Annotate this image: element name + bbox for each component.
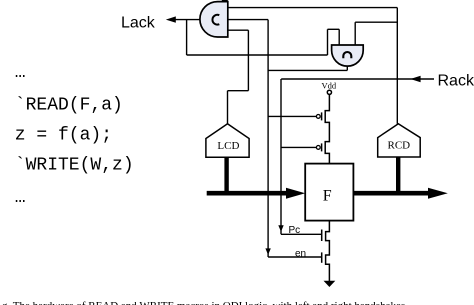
- wire: Rack vertical net down to Pc gate: [280, 79, 282, 234]
- transistor Q4 NMOS gate bar (en): [321, 252, 323, 262]
- arrowhead: right data bus output: [428, 188, 448, 199]
- wire: en gate line: [268, 256, 322, 258]
- svg-text:en: en: [295, 249, 306, 260]
- wire: vertical down to LCD apex: [227, 91, 229, 124]
- wire: clipped stub at top of U1: [222, 0, 228, 2]
- wire: U2 right input rise: [354, 22, 356, 45]
- wire: Q2 gate line from Rack net: [281, 146, 316, 148]
- svg-text:LCD: LCD: [217, 140, 239, 152]
- svg-text:`WRITE(W,z): `WRITE(W,z): [15, 156, 134, 176]
- wire: Lack feedback horizontal run: [187, 54, 328, 56]
- wire: U2 output stub: [346, 65, 348, 71]
- transistor Q1 PMOS gate bar: [321, 112, 323, 120]
- block F latch box: [305, 164, 353, 221]
- transistor Q3 NMOS gate bar (Pc): [321, 230, 323, 242]
- transistor Q2 PMOS bubble: [316, 146, 320, 150]
- arrowhead: Rack input arrow: [410, 76, 420, 82]
- wire: Pc gate line: [281, 233, 322, 235]
- wire: horizontal jog of LCD path: [228, 90, 249, 92]
- transistor Q1,Q2 PMOS chain channel path: [325, 94, 329, 163]
- svg-text:RCD: RCD: [387, 139, 410, 151]
- node: Vdd terminal dot: [327, 90, 331, 94]
- wire: U2 left input drop: [338, 29, 340, 45]
- svg-text:…: …: [15, 63, 26, 83]
- wire: Q1 gate line from U2 output net: [268, 115, 316, 117]
- wire: U2 output horizontal back to vertical net: [268, 69, 347, 71]
- svg-text:Pc: Pc: [289, 225, 301, 236]
- svg-text:g. The hardware of READ and WR: g. The hardware of READ and WRITE macros…: [2, 300, 405, 305]
- label: C glyph inside U2: [343, 52, 351, 58]
- wire: middle input of U1 from U2 output net: [228, 19, 268, 21]
- wire: left data bus (thick): [207, 191, 288, 196]
- arrowhead: Pc net downward arrow: [278, 225, 283, 232]
- transistor Q3,Q4 NMOS chain channel path: [326, 221, 330, 282]
- wire: vertical net of U2 output down to en gate: [267, 20, 269, 257]
- op-amp U1 C-element gate body: [200, 2, 228, 37]
- block LCD completion detector: [206, 124, 249, 157]
- op-amp U2 C-element gate body (pointing down): [332, 45, 364, 66]
- wire: right data bus (thick): [353, 191, 429, 196]
- arrowhead: left data bus into F: [286, 188, 305, 199]
- arrowhead: en net downward arrow: [265, 248, 270, 255]
- wire: top input from Rack net to C-element U1: [228, 7, 397, 9]
- svg-text:…: …: [15, 188, 26, 208]
- svg-text:Rack: Rack: [438, 72, 474, 89]
- transistor Q2 PMOS gate bar: [321, 143, 323, 151]
- arrowhead: Lack output arrow: [166, 16, 176, 22]
- wire: vertical from LCD path up to U1 bottom input: [247, 30, 249, 90]
- wire: Lack feedback rise to U2: [327, 29, 329, 55]
- transistor Q1 PMOS bubble: [316, 115, 320, 119]
- wire: Lack output line from U1: [169, 19, 201, 21]
- block RCD completion detector: [378, 124, 421, 157]
- wire: vertical Rack net down right side to RCD: [396, 8, 398, 124]
- wire: Lack feedback top jog to U2 input: [328, 28, 340, 30]
- wire: bottom input of U1 from LCD: [228, 29, 249, 31]
- wire: RCD thick stub to right data bus: [396, 157, 400, 192]
- svg-text:Vdd: Vdd: [322, 81, 337, 91]
- svg-text:F: F: [323, 187, 332, 204]
- svg-text:Lack: Lack: [121, 14, 156, 31]
- svg-text:`READ(F,a): `READ(F,a): [15, 95, 123, 115]
- wire: Lack feedback vertical: [186, 20, 188, 55]
- wire: LCD thick stub to left data bus: [224, 157, 228, 191]
- ground arrow below Q4: [324, 281, 336, 287]
- label: C glyph inside U1: [212, 15, 219, 25]
- wire: U2 right input horizontal to Rack net: [355, 21, 397, 23]
- svg-text:z = f(a);: z = f(a);: [15, 126, 112, 146]
- wire: Rack horizontal line: [281, 78, 434, 80]
